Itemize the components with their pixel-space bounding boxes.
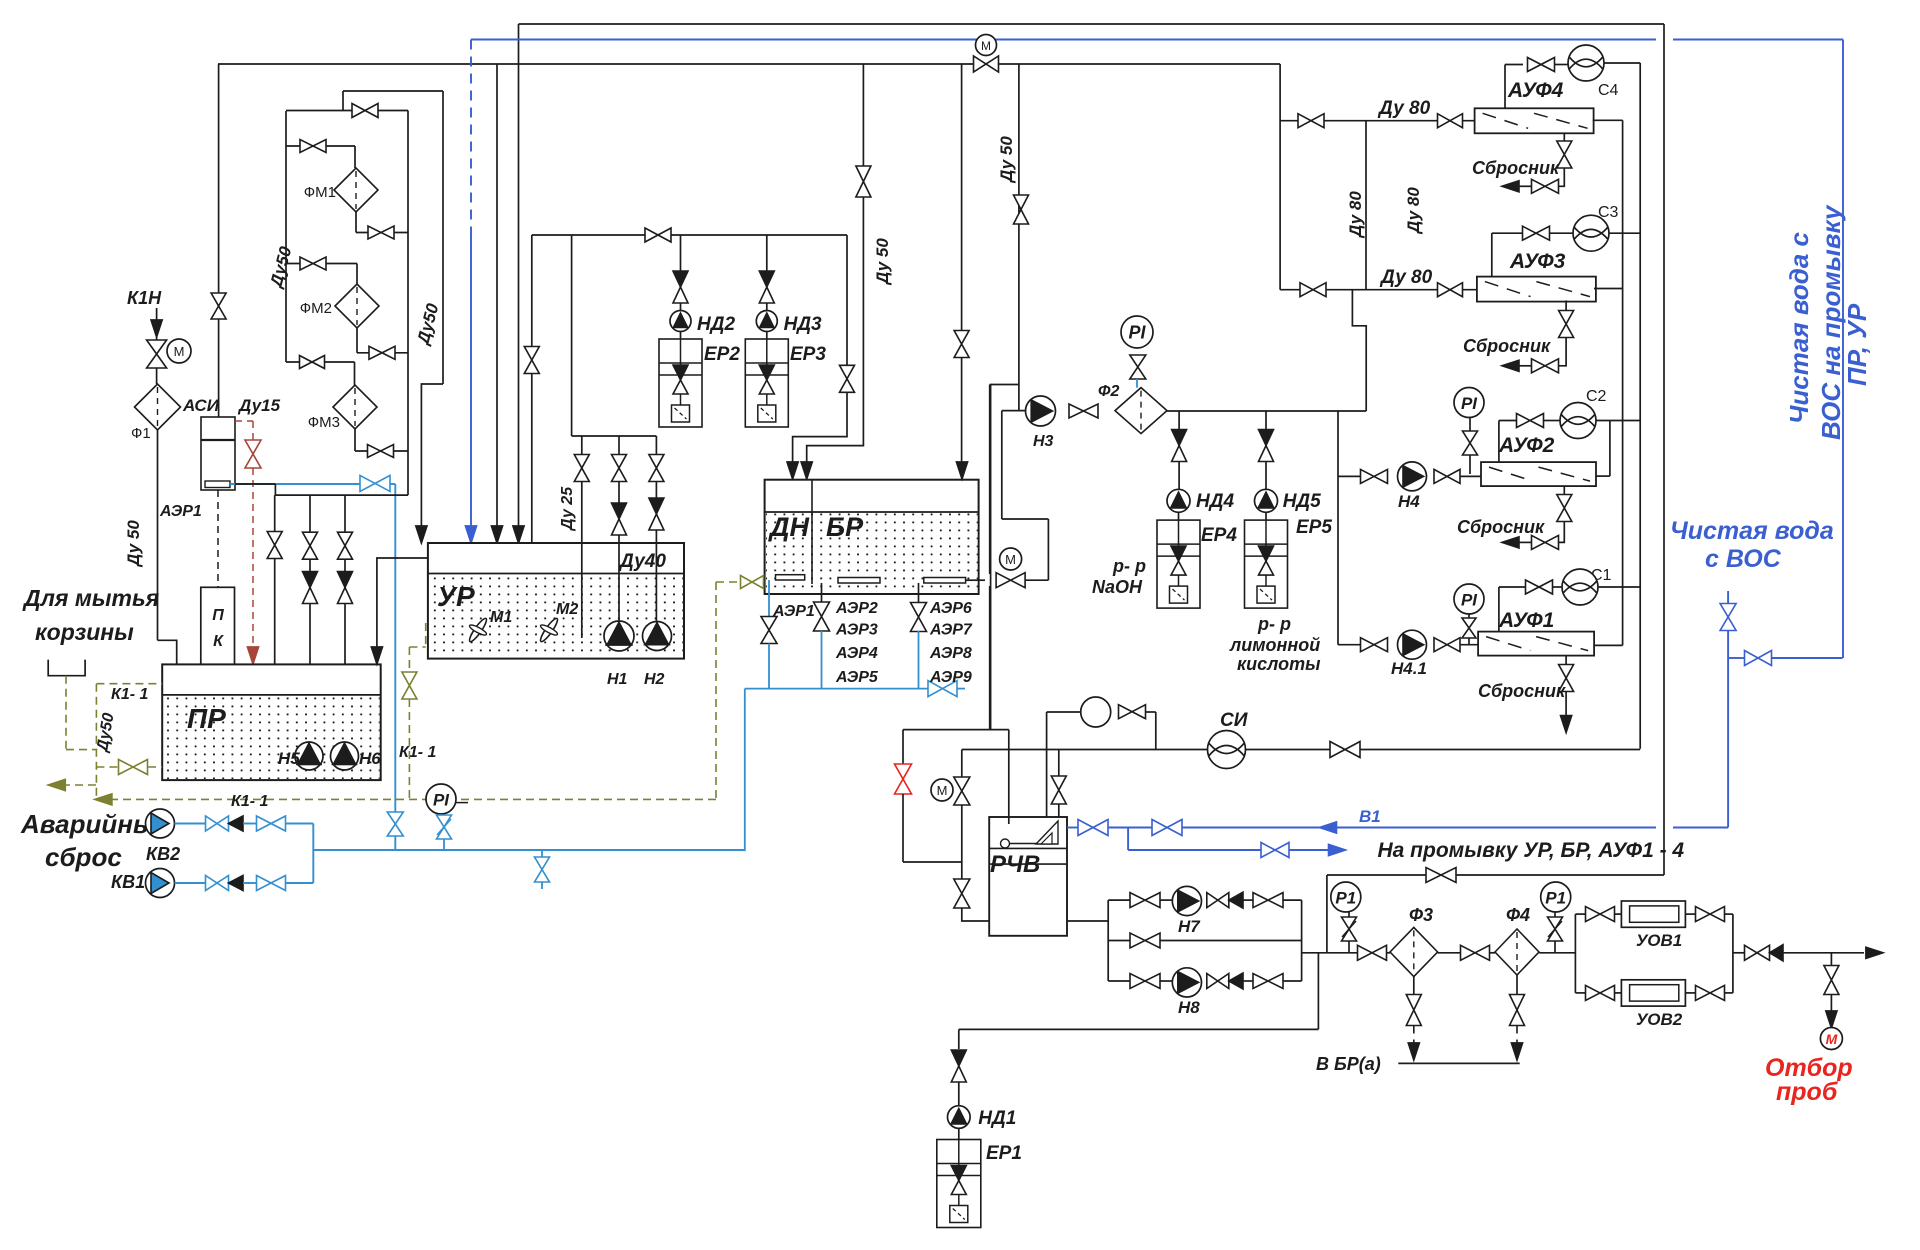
svg-text:М: М: [937, 783, 948, 798]
svg-text:ФМ2: ФМ2: [300, 300, 332, 317]
svg-text:АЭР8: АЭР8: [929, 645, 972, 662]
svg-text:КВ1: КВ1: [111, 872, 145, 892]
svg-text:НД3: НД3: [784, 314, 822, 335]
svg-text:Н5: Н5: [278, 749, 300, 768]
svg-text:Н3: Н3: [1033, 433, 1054, 450]
svg-text:АЭР7: АЭР7: [929, 622, 973, 639]
svg-text:Сбросник: Сбросник: [1478, 681, 1566, 701]
svg-text:Ф2: Ф2: [1098, 383, 1119, 400]
svg-text:КВ2: КВ2: [146, 844, 180, 864]
svg-text:Р1: Р1: [1335, 888, 1356, 907]
svg-text:К1Н: К1Н: [127, 288, 162, 308]
svg-text:Ф4: Ф4: [1506, 905, 1530, 925]
svg-text:Чистая вода: Чистая вода: [1670, 517, 1834, 545]
svg-text:корзины: корзины: [35, 619, 134, 645]
svg-text:УОВ2: УОВ2: [1636, 1010, 1683, 1029]
svg-text:PI: PI: [1461, 394, 1478, 413]
svg-text:лимонной: лимонной: [1229, 635, 1320, 655]
svg-text:проб: проб: [1776, 1078, 1839, 1106]
svg-text:ФМ3: ФМ3: [308, 414, 340, 431]
svg-text:М: М: [174, 344, 185, 359]
svg-text:АСИ: АСИ: [182, 396, 220, 415]
svg-text:АЭР9: АЭР9: [929, 669, 972, 686]
svg-text:АУФ2: АУФ2: [1498, 434, 1555, 457]
svg-text:УР: УР: [437, 581, 475, 612]
svg-text:СИ: СИ: [1220, 710, 1248, 731]
svg-text:УОВ1: УОВ1: [1636, 931, 1682, 950]
svg-text:Чистая вода с: Чистая вода с: [1784, 231, 1814, 424]
svg-text:Ду 80: Ду 80: [1379, 267, 1433, 288]
svg-text:М: М: [1826, 1031, 1838, 1047]
svg-text:Р1: Р1: [1545, 888, 1566, 907]
svg-text:НД5: НД5: [1283, 491, 1321, 512]
svg-text:С2: С2: [1586, 388, 1607, 405]
svg-text:НД4: НД4: [1196, 491, 1234, 512]
svg-text:М: М: [981, 39, 991, 53]
svg-text:с ВОС: с ВОС: [1705, 545, 1782, 573]
svg-text:NaOH: NaOH: [1092, 577, 1143, 597]
svg-text:АЭР1: АЭР1: [159, 503, 202, 520]
svg-text:П: П: [212, 607, 224, 624]
svg-text:Ду 25: Ду 25: [559, 486, 576, 532]
svg-text:М2: М2: [556, 601, 578, 618]
svg-text:РЧВ: РЧВ: [990, 851, 1040, 878]
svg-text:К1- 1: К1- 1: [399, 744, 437, 761]
svg-text:Н4: Н4: [1398, 492, 1420, 511]
svg-text:В1: В1: [1359, 807, 1381, 826]
svg-text:В БР(а): В БР(а): [1316, 1054, 1381, 1074]
svg-text:АЭР6: АЭР6: [929, 600, 972, 617]
svg-text:Н7: Н7: [1178, 917, 1201, 936]
svg-text:АЭР5: АЭР5: [835, 669, 879, 686]
svg-text:ЕР2: ЕР2: [704, 344, 740, 365]
svg-text:Н8: Н8: [1178, 998, 1200, 1017]
svg-text:Ду15: Ду15: [237, 396, 281, 415]
svg-text:С4: С4: [1598, 82, 1619, 99]
svg-text:PI: PI: [433, 790, 450, 809]
svg-text:Н1: Н1: [607, 671, 628, 688]
svg-text:ПР: ПР: [187, 703, 226, 734]
svg-text:АЭР3: АЭР3: [835, 622, 878, 639]
svg-text:АЭР1: АЭР1: [772, 603, 815, 620]
svg-text:ФМ1: ФМ1: [304, 184, 336, 201]
svg-text:PI: PI: [1128, 323, 1146, 343]
svg-text:ЕР5: ЕР5: [1296, 517, 1332, 538]
svg-text:сброс: сброс: [45, 842, 122, 872]
svg-text:АУФ4: АУФ4: [1507, 79, 1564, 102]
svg-text:АУФ1: АУФ1: [1498, 609, 1554, 632]
svg-text:Н6: Н6: [359, 749, 381, 768]
svg-text:АУФ3: АУФ3: [1509, 250, 1566, 273]
svg-text:ЕР3: ЕР3: [790, 344, 826, 365]
svg-text:кислоты: кислоты: [1237, 654, 1321, 674]
svg-text:БР: БР: [826, 512, 864, 542]
svg-text:Ду 80: Ду 80: [1346, 191, 1365, 239]
svg-text:К1- 1: К1- 1: [231, 793, 269, 810]
svg-text:Ф3: Ф3: [1409, 905, 1433, 925]
svg-text:Н4.1: Н4.1: [1391, 659, 1427, 678]
svg-text:ЕР1: ЕР1: [986, 1143, 1022, 1164]
svg-text:НД1: НД1: [978, 1108, 1016, 1129]
svg-text:Сбросник: Сбросник: [1457, 517, 1545, 537]
svg-text:Ду 80: Ду 80: [1404, 187, 1423, 235]
svg-text:ПР, УР: ПР, УР: [1842, 303, 1872, 386]
svg-text:Ду 80: Ду 80: [1377, 98, 1431, 119]
svg-text:р- р: р- р: [1257, 614, 1291, 634]
svg-text:НД2: НД2: [697, 314, 735, 335]
svg-text:АЭР2: АЭР2: [835, 600, 878, 617]
svg-text:PI: PI: [1461, 590, 1478, 609]
svg-text:Ф1: Ф1: [131, 425, 151, 442]
svg-text:Ду 50: Ду 50: [124, 520, 143, 568]
svg-text:На промывку УР, БР, АУФ1 - 4: На промывку УР, БР, АУФ1 - 4: [1378, 839, 1685, 862]
svg-text:Ду40: Ду40: [618, 551, 666, 572]
svg-text:р- р: р- р: [1112, 556, 1146, 576]
svg-text:Н2: Н2: [644, 671, 665, 688]
svg-text:ЕР4: ЕР4: [1201, 525, 1237, 546]
svg-text:М1: М1: [490, 609, 512, 626]
svg-text:ДН: ДН: [768, 512, 809, 542]
svg-text:АЭР4: АЭР4: [835, 645, 878, 662]
svg-text:Ду 50: Ду 50: [873, 238, 892, 286]
svg-text:Сбросник: Сбросник: [1472, 158, 1560, 178]
svg-text:К1- 1: К1- 1: [111, 686, 149, 703]
svg-text:Ду 50: Ду 50: [997, 136, 1016, 184]
svg-text:К: К: [213, 633, 224, 650]
svg-text:Сбросник: Сбросник: [1463, 336, 1551, 356]
svg-text:Для мытья: Для мытья: [22, 585, 160, 611]
svg-text:М: М: [1005, 552, 1016, 567]
